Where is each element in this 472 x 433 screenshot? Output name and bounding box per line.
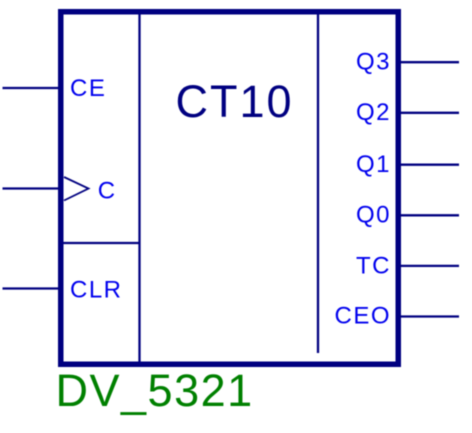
CLR section separator line: [63, 242, 141, 244]
svg-text:CEO: CEO: [334, 303, 391, 330]
pin CE wire: [3, 87, 59, 89]
svg-text:C: C: [98, 178, 115, 205]
left pin-name column divider: [138, 14, 140, 362]
IC body U1 (CT10 decade counter) outline: [61, 12, 399, 365]
svg-text:Q2: Q2: [356, 99, 391, 126]
svg-text:Q0: Q0: [356, 202, 391, 229]
pin Q3 wire: [401, 61, 459, 63]
pin CLR wire: [3, 287, 59, 289]
pin Q2 wire: [401, 112, 459, 114]
clock input wedge: [64, 177, 89, 201]
svg-text:Q3: Q3: [356, 48, 391, 75]
pin Q0 wire: [401, 214, 459, 216]
svg-text:CT10: CT10: [176, 76, 294, 127]
svg-text:TC: TC: [356, 253, 391, 280]
svg-text:Q1: Q1: [356, 151, 391, 178]
pin TC wire: [401, 265, 459, 267]
svg-text:DV_5321: DV_5321: [56, 365, 254, 416]
pin CEO wire: [401, 315, 459, 317]
pin Q1 wire: [401, 164, 459, 166]
pin C (clock) wire: [3, 187, 59, 189]
svg-text:CLR: CLR: [70, 277, 123, 304]
right pin-name column divider: [317, 14, 319, 353]
svg-text:CE: CE: [70, 75, 106, 102]
